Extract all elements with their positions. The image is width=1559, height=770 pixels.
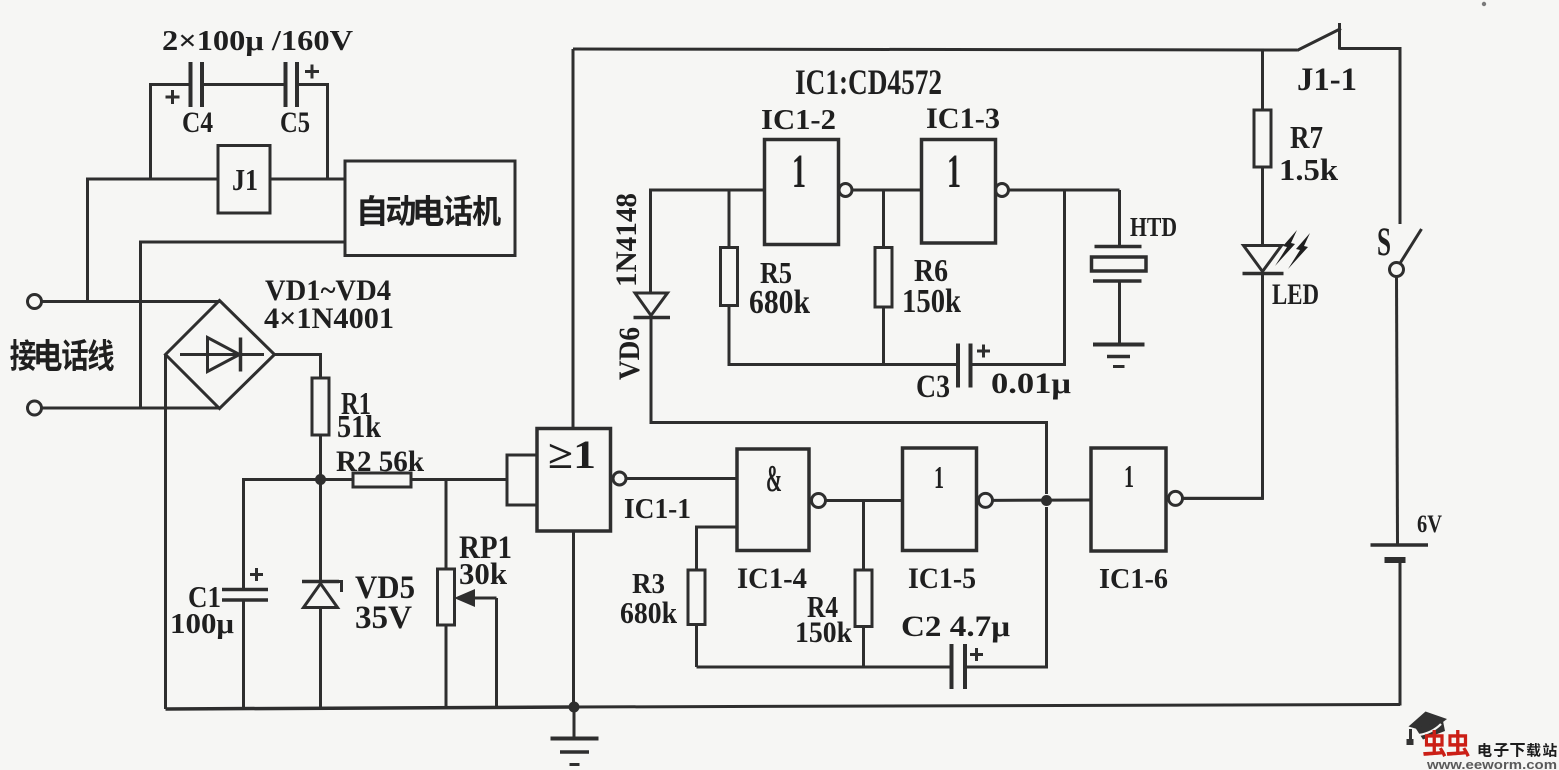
svg-text:LED: LED <box>1272 278 1319 311</box>
wire: IC1-3 out to HTD <box>1009 189 1120 192</box>
terminal 1 <box>28 295 42 309</box>
resistor R3 <box>688 570 705 625</box>
or-gate IC1-1 input box <box>507 455 537 505</box>
loop bottom: R3 to C2 <box>697 666 951 669</box>
capacitor C1 <box>222 588 268 592</box>
plus mark C3 <box>977 350 990 353</box>
node: feedback junction <box>1041 495 1052 506</box>
svg-text:150k: 150k <box>902 283 961 320</box>
svg-text:J1-1: J1-1 <box>1297 62 1357 98</box>
wire: R1 to R2 junction <box>319 435 322 480</box>
svg-text:150k: 150k <box>795 616 852 649</box>
svg-text:R2 56k: R2 56k <box>336 445 424 478</box>
wire: IC1-5 out to IC1-6 <box>993 499 1092 502</box>
svg-text:IC1-1: IC1-1 <box>624 493 691 525</box>
capacitor C4 <box>189 62 193 107</box>
inverter IC1-5 <box>903 448 977 551</box>
oscillator: IC1-2 input wire and VD6 branch <box>651 190 765 293</box>
plus mark C4 <box>166 96 180 99</box>
IC1-5 output bubble <box>979 493 993 507</box>
resistor R5 <box>721 248 738 306</box>
svg-text:IC1:CD4572: IC1:CD4572 <box>795 62 942 102</box>
ground rail (bottom) <box>166 707 575 709</box>
switch S <box>1399 222 1402 224</box>
wire: C1 bottom to ground rail <box>242 600 245 709</box>
relay contact J1-1 <box>1297 29 1341 51</box>
osc loop bottom: R5 to C3 <box>729 363 957 366</box>
inverter IC1-6 <box>1091 448 1166 551</box>
bridge rectifier VD1~VD4 <box>166 301 275 409</box>
diode VD6 <box>635 293 668 316</box>
plus mark C1 <box>250 573 263 576</box>
wire: bridge left vertex down to ground rail <box>164 355 167 710</box>
capacitor C2 <box>950 644 954 689</box>
svg-text:C3: C3 <box>916 369 950 405</box>
svg-text:IC1-3: IC1-3 <box>926 102 1000 135</box>
potentiometer RP1 <box>445 480 448 570</box>
wire: C4 left lead and left rail down to J1 wire <box>151 85 190 180</box>
svg-text:VD6: VD6 <box>613 327 646 380</box>
ground under HTD <box>1093 343 1145 347</box>
svg-text:www.eeworm.com: www.eeworm.com <box>1426 757 1557 770</box>
svg-text:1: 1 <box>792 145 806 198</box>
svg-text:35V: 35V <box>355 600 412 636</box>
IC1-1 output bubble <box>613 472 626 485</box>
wire: R7 branch from rail <box>1261 49 1264 110</box>
plus mark C2 <box>970 653 983 656</box>
inverter IC1-3 <box>922 140 996 244</box>
watermark dianzi-xiazai-zhan <box>1479 743 1557 757</box>
wire: R5 branch <box>728 190 731 248</box>
svg-text:C2 4.7μ: C2 4.7μ <box>901 610 1010 643</box>
svg-text:R7: R7 <box>1290 119 1323 155</box>
wire: VD6 down, across, to IC1-5 output junction <box>651 318 1047 495</box>
battery 6V <box>1371 543 1429 547</box>
resistor R1 <box>312 378 329 435</box>
wire: IC1-1 output to IC1-4 <box>626 477 737 480</box>
resistor R6 <box>875 248 892 308</box>
svg-text:2×100μ /160V: 2×100μ /160V <box>162 26 353 57</box>
svg-text:1.5k: 1.5k <box>1279 152 1339 187</box>
svg-text:6V: 6V <box>1417 511 1442 538</box>
wire: bridge output to R1 <box>275 355 321 379</box>
plus mark C5 <box>305 70 319 73</box>
svg-text:1: 1 <box>934 459 944 495</box>
capacitor C3 <box>956 344 960 388</box>
IC1-6 output bubble <box>1169 491 1183 505</box>
svg-text:1N4148: 1N4148 <box>610 193 643 287</box>
box: automatic telephone <box>345 161 515 256</box>
LED <box>1244 246 1282 272</box>
svg-text:C4: C4 <box>182 106 213 139</box>
node: ground junction <box>569 702 580 713</box>
svg-text:C5: C5 <box>280 106 310 139</box>
power rail (top) <box>573 49 1297 50</box>
svg-text:51k: 51k <box>337 408 381 444</box>
svg-text:IC1-6: IC1-6 <box>1099 563 1168 595</box>
scan speck top right <box>1482 2 1486 6</box>
IC1-4 second input from R3 <box>697 527 738 570</box>
nand gate IC1-4 <box>737 449 809 551</box>
svg-text:IC1-2: IC1-2 <box>761 104 836 136</box>
wire: left drop to phone-line terminal 1 <box>88 179 219 302</box>
svg-text:IC1-4: IC1-4 <box>737 562 807 595</box>
resistor R4 <box>855 570 872 627</box>
IC1-3 output bubble <box>996 184 1009 197</box>
wire: IC1-1 top to power rail <box>572 49 575 429</box>
svg-text:30k: 30k <box>459 556 508 591</box>
label automatic-telephone <box>360 195 500 226</box>
or-gate IC1-1 body <box>537 429 611 532</box>
inverter IC1-2 <box>765 140 839 245</box>
wire: IC1-2 out to IC1-3 in <box>852 189 922 192</box>
IC1-2 output bubble <box>839 184 852 197</box>
svg-text:1: 1 <box>1124 458 1134 494</box>
relay coil J1 <box>218 146 270 214</box>
IC1-4 output bubble <box>812 494 826 508</box>
svg-text:J1: J1 <box>232 162 258 197</box>
svg-text:0.01μ: 0.01μ <box>991 367 1071 400</box>
svg-text:100μ: 100μ <box>170 608 235 640</box>
wire: C4 to C5 <box>202 83 285 86</box>
wire: telephone box bottom-left down to terminal 2 wire <box>141 242 346 408</box>
LED arrows <box>1275 230 1310 269</box>
svg-text:680k: 680k <box>749 284 810 321</box>
watermark chongchong <box>1423 730 1470 757</box>
svg-text:4×1N4001: 4×1N4001 <box>264 302 394 335</box>
wire: C3 right up to output wire <box>971 190 1065 365</box>
resistor R2 <box>321 478 354 481</box>
ground symbol <box>573 707 576 737</box>
svg-text:≥1: ≥1 <box>548 432 596 477</box>
svg-text:1: 1 <box>947 145 961 198</box>
svg-text:IC1-5: IC1-5 <box>908 562 976 595</box>
svg-text:&: & <box>766 458 782 500</box>
terminal 2 <box>28 401 42 415</box>
svg-text:HTD: HTD <box>1130 212 1177 242</box>
zener diode VD5 <box>319 480 322 582</box>
node: R1/R2/VD5 junction <box>315 474 326 485</box>
piezo sounder HTD <box>1118 190 1121 247</box>
watermark graduation cap <box>1407 712 1448 746</box>
wire: R4 branch <box>862 501 865 571</box>
RP1 wiper arrow <box>468 597 497 600</box>
wire: IC1-6 out (to LED drop) <box>1183 497 1264 500</box>
wire: LED to IC1-6 output <box>1183 274 1263 499</box>
wire: IC1-4 out to IC1-5 <box>826 499 903 502</box>
svg-text:S: S <box>1377 219 1391 264</box>
resistor R7 <box>1254 110 1271 167</box>
wire: J1 to telephone box <box>270 178 346 181</box>
wire: IC1-1 bottom to ground rail <box>572 531 575 707</box>
wire: C2 right to feedback junction <box>965 507 1047 667</box>
label connect-phone-line <box>10 339 114 371</box>
wire: C5 right lead down to J1 right wire <box>297 85 328 180</box>
wire: rail right of J1-1 to top-right corner <box>1340 49 1401 223</box>
svg-text:680k: 680k <box>620 595 678 630</box>
wire: R6 branch <box>882 190 885 248</box>
wire: junction left to C1 branch <box>244 480 321 589</box>
capacitor C5 <box>284 62 288 107</box>
